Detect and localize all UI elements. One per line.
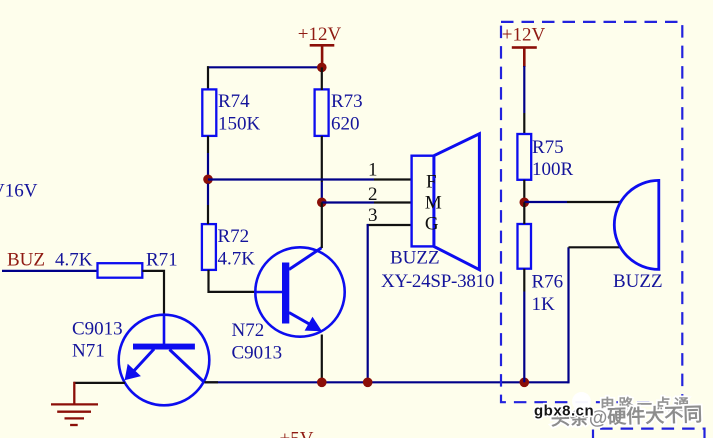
wire R74 to node <box>207 153 209 180</box>
wire R73 bottom pin <box>321 136 323 182</box>
resistor R74 <box>202 89 260 135</box>
power +12V (right) <box>502 25 546 67</box>
wire R72 top pin <box>207 184 209 206</box>
svg-text:V16V: V16V <box>0 180 38 201</box>
resistor R75 <box>517 134 573 180</box>
transistor N72 <box>232 247 345 363</box>
wire to R75 <box>523 66 525 113</box>
svg-text:4.7K: 4.7K <box>55 250 93 271</box>
wire R72 bottom to N72 base <box>209 270 256 292</box>
dashed box 1 <box>501 22 682 402</box>
svg-text:100R: 100R <box>532 159 574 180</box>
svg-text:1K: 1K <box>532 294 556 315</box>
wire R71 right pin <box>142 270 164 272</box>
svg-text:R72: R72 <box>218 226 250 247</box>
svg-text:+5V: +5V <box>280 429 314 438</box>
svg-text:+12V: +12V <box>502 25 546 46</box>
wire pin1 net <box>208 178 374 180</box>
svg-text:150K: 150K <box>218 114 261 135</box>
wire bottom rail <box>205 381 569 383</box>
power +12V (center) <box>298 24 342 68</box>
wire N72 emitter down <box>321 335 323 383</box>
resistor R72 <box>202 224 255 270</box>
svg-text:2: 2 <box>368 184 378 205</box>
svg-text:F: F <box>426 172 437 193</box>
svg-text:+12V: +12V <box>298 24 342 45</box>
svg-text:1: 1 <box>368 160 378 181</box>
svg-text:BUZZ: BUZZ <box>613 271 663 292</box>
node top junction <box>317 63 327 73</box>
svg-text:C9013: C9013 <box>232 343 283 364</box>
wire R74 bottom pin <box>207 136 209 153</box>
svg-text:4.7K: 4.7K <box>218 249 256 270</box>
svg-text:R71: R71 <box>146 250 178 271</box>
wire R73 top pin <box>321 67 323 90</box>
resistor R71 <box>55 250 178 278</box>
svg-text:R76: R76 <box>532 272 564 293</box>
pin 3 <box>367 224 413 226</box>
svg-text:M: M <box>425 192 442 213</box>
svg-text:R74: R74 <box>218 91 250 112</box>
node rail junction C <box>520 378 530 388</box>
wire junction to speaker upper <box>524 201 567 203</box>
svg-text:gbx8.cn: gbx8.cn <box>534 403 594 420</box>
svg-text:R73: R73 <box>331 91 363 112</box>
wire BUZ input <box>2 270 98 272</box>
node rail junction B <box>363 378 373 388</box>
svg-text:C9013: C9013 <box>72 319 123 340</box>
wire N72 collector <box>321 202 323 248</box>
node mid junction <box>317 198 327 208</box>
pin speaker lower <box>569 246 622 248</box>
wire pin2 net <box>322 201 374 203</box>
wire N71 emitter to ground <box>74 382 126 384</box>
svg-text:XY-24SP-3810: XY-24SP-3810 <box>381 271 494 292</box>
pin 1 <box>374 178 413 180</box>
buzzer U1 body <box>381 134 494 292</box>
wire top rail <box>207 66 322 68</box>
svg-text:3: 3 <box>368 205 378 226</box>
svg-text:N72: N72 <box>232 320 265 341</box>
node left junction <box>203 175 213 185</box>
svg-text:620: 620 <box>331 114 360 135</box>
ground <box>51 382 98 425</box>
wire R76 top pin <box>523 202 525 224</box>
dashed box 2 (bottom right) <box>593 429 705 438</box>
wire pin3 down <box>367 224 369 382</box>
transistor N71 <box>72 315 209 406</box>
wire R73 to node <box>321 182 323 202</box>
svg-text:G: G <box>425 214 439 235</box>
buzzer U2 (right speaker) <box>613 180 663 292</box>
node rail junction A <box>317 378 327 388</box>
svg-text:N71: N71 <box>72 341 105 362</box>
watermark icon <box>572 392 591 411</box>
wire R71 corner down to N71 base <box>163 271 165 315</box>
wire rail up right <box>567 247 569 383</box>
resistor R76 <box>518 224 564 315</box>
resistor R73 <box>315 89 363 135</box>
svg-text:R75: R75 <box>532 137 564 158</box>
svg-text:BUZZ: BUZZ <box>390 247 440 268</box>
wire corner to R74 top pin <box>207 66 209 90</box>
pin speaker upper <box>567 201 621 203</box>
pin 2 <box>374 201 413 203</box>
wire R76 bottom pin <box>523 269 525 292</box>
wire R76 to rail <box>523 292 525 383</box>
wire R75 bottom pin <box>523 180 525 202</box>
svg-text:BUZ: BUZ <box>7 250 45 271</box>
node right junction <box>520 198 530 208</box>
